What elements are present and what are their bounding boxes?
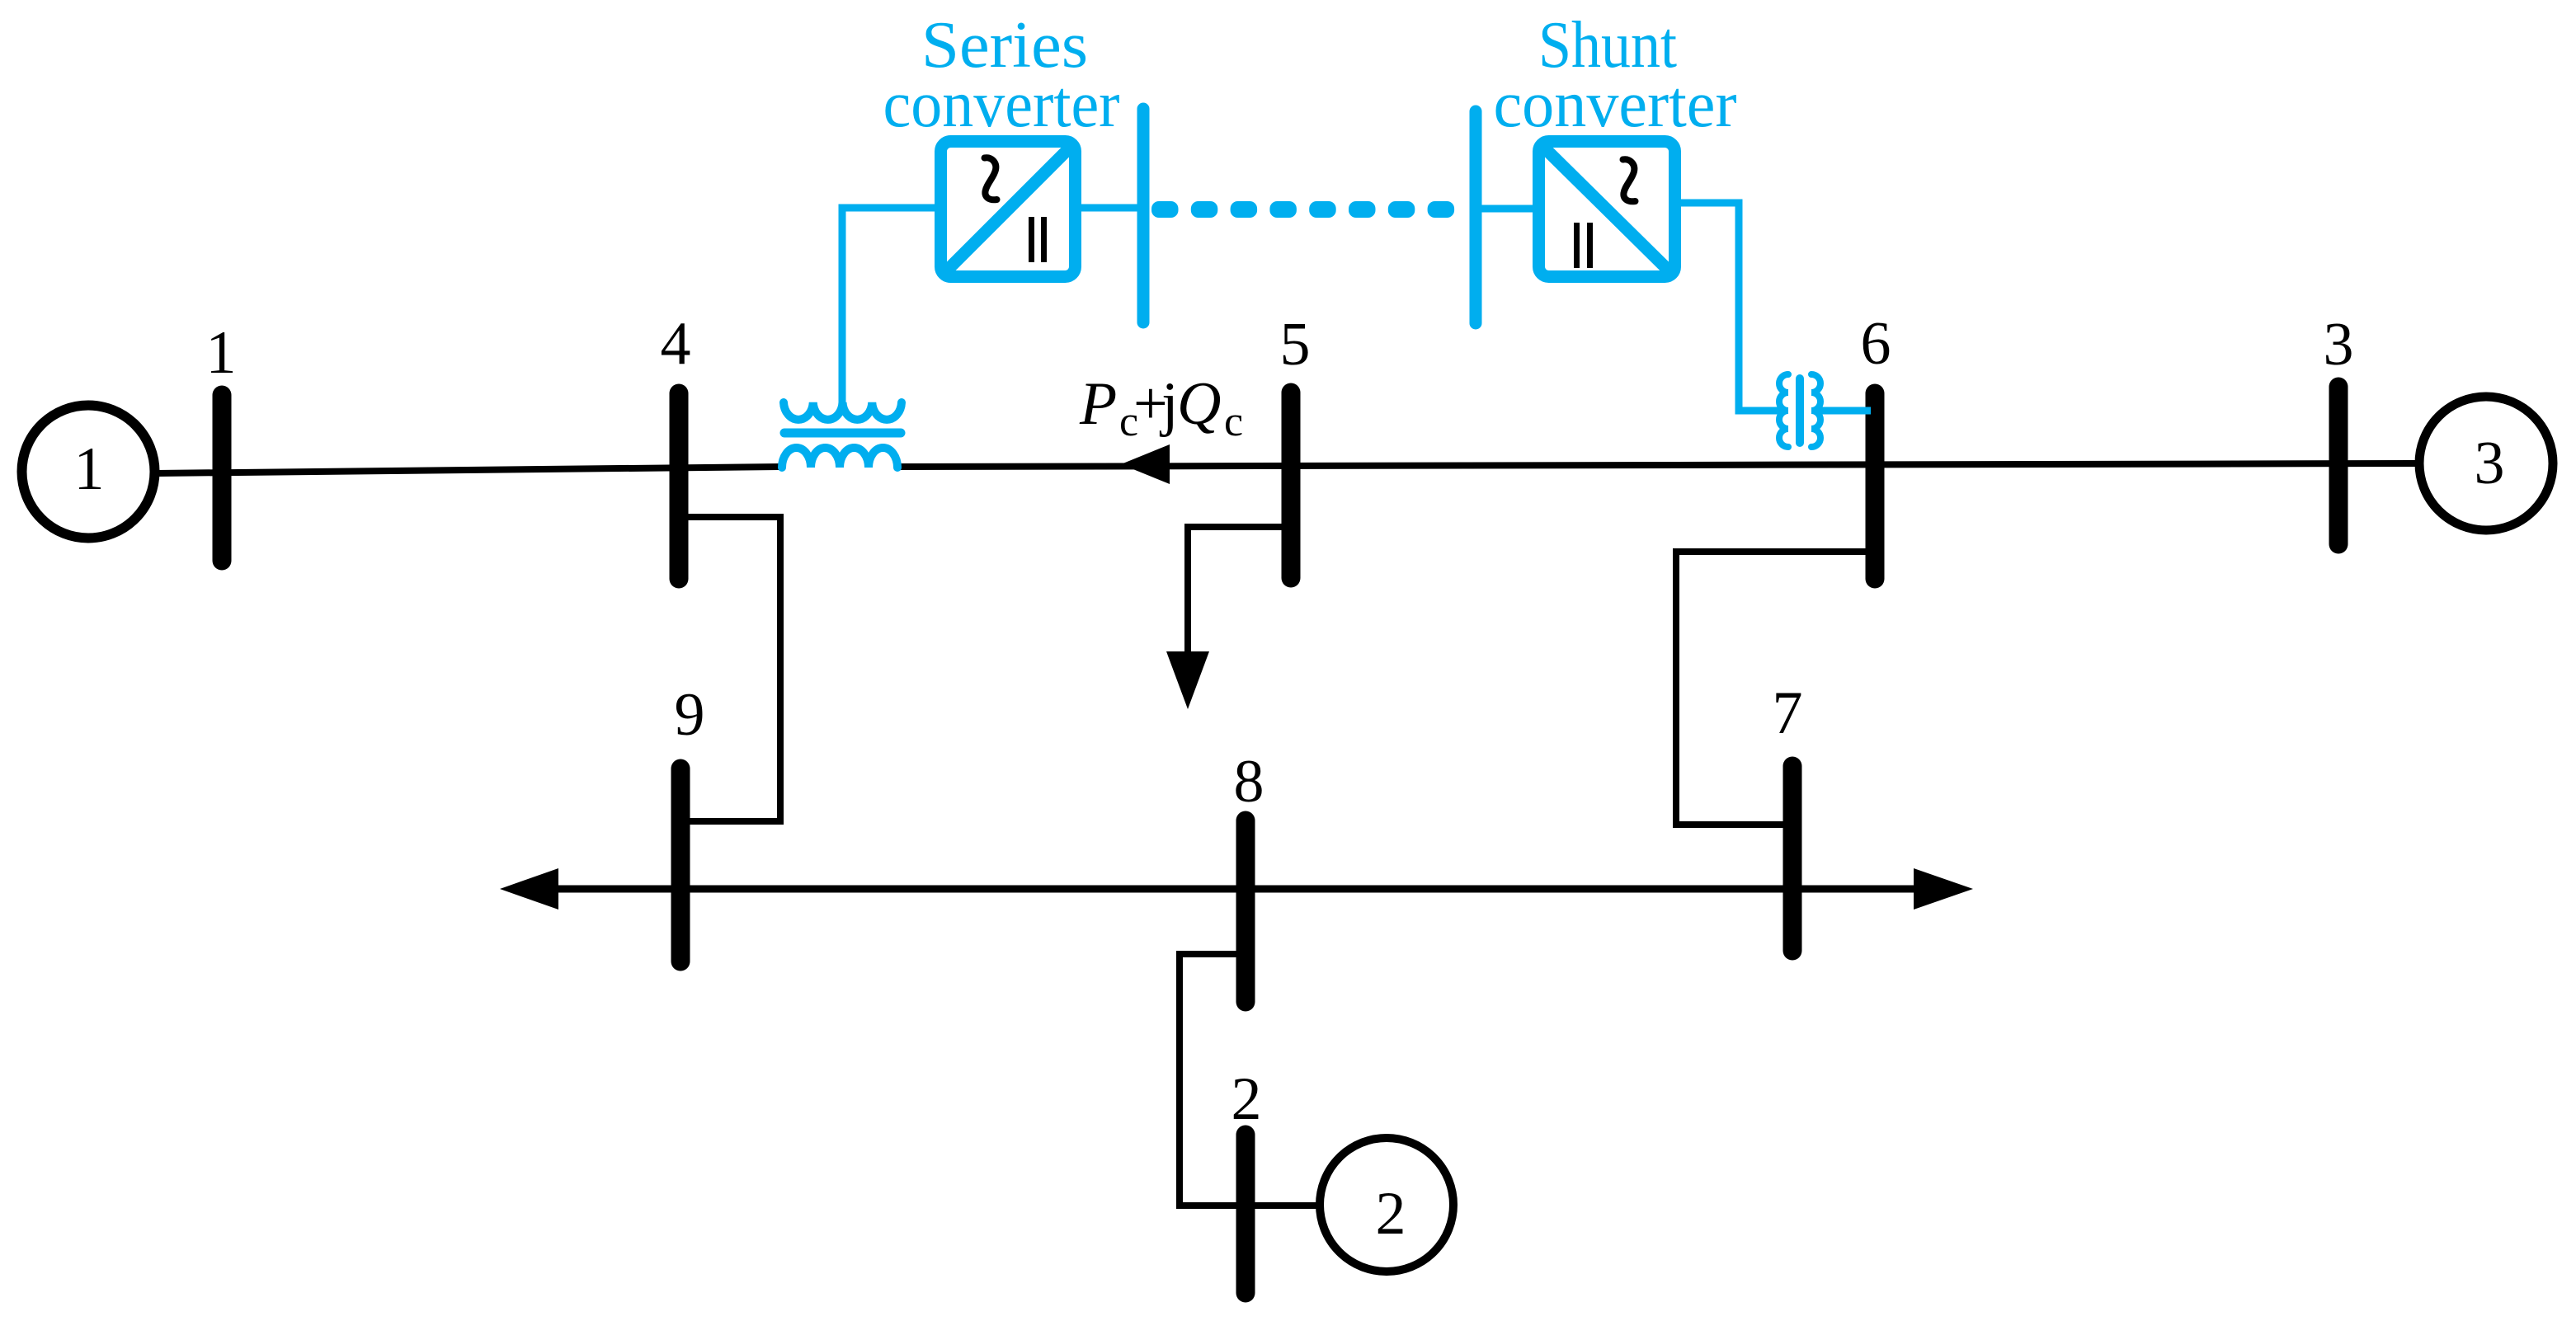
wire: branch bus8 to bus2 <box>1180 954 1246 1206</box>
converter U2 (shunt converter) box <box>1539 142 1675 277</box>
bus 9 <box>671 769 690 961</box>
wire: shunt box right down to shunt transformer <box>1681 203 1785 411</box>
arrowhead tie line right <box>1914 868 1973 910</box>
wire: main line gen1 to series transformer <box>157 467 780 473</box>
svg-text:9: 9 <box>675 681 705 749</box>
transformer T2 (shunt) left winding <box>1779 374 1788 447</box>
svg-text:converter: converter <box>883 68 1120 141</box>
svg-text:7: 7 <box>1773 679 1803 747</box>
bus 4 <box>670 393 689 579</box>
bus 1 <box>213 395 232 561</box>
transformer T2 core bar <box>1796 378 1804 443</box>
svg-text:j: j <box>1159 370 1179 438</box>
DC link dashed line <box>1151 201 1454 218</box>
svg-text:1: 1 <box>206 319 237 387</box>
wire: DC bar right to shunt box <box>1476 205 1533 213</box>
transformer T1 bottom winding <box>782 448 897 468</box>
wire: lower tie line bus9-bus8-bus7 <box>553 886 1918 893</box>
transformer T1 (series) top winding <box>784 402 902 420</box>
AC squiggle in U1 (black) <box>985 157 997 200</box>
svg-text:Q: Q <box>1177 370 1221 438</box>
label Pc+jQc <box>1079 370 1243 445</box>
wire: branch bus5 to load <box>1188 527 1291 653</box>
svg-text:5: 5 <box>1280 311 1311 378</box>
svg-text:3: 3 <box>2324 311 2354 378</box>
buses: thick rounded bars <box>222 387 2338 1293</box>
labels: black digits <box>74 310 2505 1248</box>
wire: branch bus4 to bus9 <box>679 517 780 821</box>
wire: series box left down to series transformer <box>842 208 935 406</box>
DC link capacitor bar left <box>1137 109 1150 322</box>
DC link capacitor bar right <box>1470 111 1482 323</box>
bus 5 <box>1282 393 1301 578</box>
wire: branch bus6 to bus7 <box>1676 552 1875 825</box>
bus 7 <box>1783 766 1802 951</box>
wire: bus2 to generator G2 <box>1246 1202 1319 1209</box>
DC bars symbol in U1 (black) <box>1029 217 1593 268</box>
svg-text:8: 8 <box>1234 748 1264 816</box>
wire: main line series transformer to gen3 <box>898 463 2415 467</box>
AC squiggle in U2 (black) <box>1623 159 1636 201</box>
arrowhead Pc flow (points left) <box>1121 444 1170 484</box>
svg-text:4: 4 <box>661 310 691 378</box>
bus 2 <box>1236 1135 1255 1293</box>
transformer T2 right winding <box>1811 374 1820 447</box>
bus 8 <box>1236 820 1255 1002</box>
generator G1 <box>22 406 155 538</box>
svg-text:1: 1 <box>74 435 105 503</box>
svg-text:converter: converter <box>1494 68 1737 141</box>
bus 6 <box>1866 393 1885 579</box>
bus 3 <box>2329 387 2348 544</box>
converter U1 (series converter) box <box>941 142 1076 277</box>
wire: shunt transformer to bus 6 <box>1815 407 1871 415</box>
svg-text:2: 2 <box>1376 1180 1406 1248</box>
svg-text:c: c <box>1224 398 1243 445</box>
arrowhead load at bus5 (points down) <box>1166 651 1209 709</box>
DC bars symbol in U2 (black) <box>1574 223 1580 268</box>
svg-text:3: 3 <box>2475 430 2505 497</box>
transformer T1 core bar <box>784 429 901 438</box>
svg-text:2: 2 <box>1231 1065 1262 1133</box>
label Series converter <box>883 9 1737 141</box>
svg-text:P: P <box>1079 370 1117 438</box>
svg-text:6: 6 <box>1861 310 1891 378</box>
generator G2 <box>1320 1138 1453 1272</box>
generator G3 <box>2419 397 2553 530</box>
wire: series box right to DC bar left <box>1081 204 1143 212</box>
arrowhead tie line left <box>500 868 558 910</box>
